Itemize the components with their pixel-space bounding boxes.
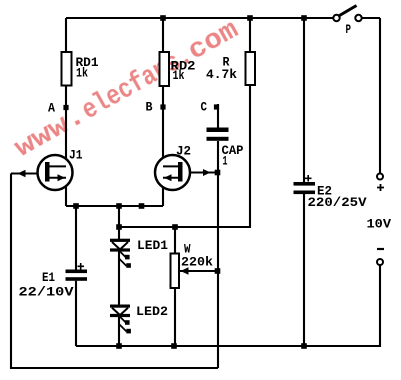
svg-text:220/25V: 220/25V bbox=[308, 195, 367, 210]
node dot E2 / negative rail bbox=[301, 343, 307, 349]
wire left feedback loop and bottom to C line bbox=[11, 174, 218, 369]
wire C line from bottom up to CAP1 lower plate bbox=[217, 141, 219, 368]
wire R down and left to LED/pot bus bbox=[119, 85, 250, 227]
wire battery minus lead to negative rail bbox=[304, 265, 380, 346]
minus mark battery bbox=[377, 248, 384, 250]
potentiometer W body bbox=[171, 254, 180, 289]
node dot source bus extra bbox=[139, 203, 145, 209]
node dot W top / R bus bbox=[172, 224, 178, 230]
LED1 bbox=[110, 239, 131, 268]
wire W top lead bbox=[174, 227, 176, 254]
wire RD2 to J2 drain through node B bbox=[162, 86, 164, 166]
wire E1 top lead bbox=[75, 206, 77, 270]
node dot top rail R bbox=[247, 15, 253, 21]
node dot E1 / source bus bbox=[73, 203, 79, 209]
svg-text:4.7k: 4.7k bbox=[206, 67, 237, 82]
svg-text:B: B bbox=[146, 100, 153, 115]
node dot LED branch / source bus bbox=[116, 203, 122, 209]
wire battery plus lead bbox=[379, 18, 381, 174]
transistor J1 bbox=[38, 155, 73, 190]
node dot J2 gate / C line bbox=[215, 170, 221, 176]
battery minus terminal bbox=[377, 259, 383, 265]
wire E2 branch top bbox=[303, 18, 305, 182]
watermark www.elecfans.com bbox=[10, 15, 244, 165]
svg-text:C: C bbox=[201, 100, 208, 115]
node A bbox=[63, 105, 68, 110]
svg-text:1k: 1k bbox=[76, 66, 88, 81]
svg-text:P: P bbox=[346, 22, 352, 37]
potentiometer W wiper arrow bbox=[181, 267, 189, 274]
wire negative rail bbox=[76, 345, 380, 347]
svg-text:220k: 220k bbox=[181, 255, 213, 270]
node dot top rail E2 bbox=[301, 15, 307, 21]
LED2 bbox=[110, 305, 131, 334]
wire J1 source to bus bbox=[65, 178, 67, 206]
capacitor E1 bbox=[66, 270, 88, 281]
node dot LED2 / negative rail bbox=[116, 343, 122, 349]
wire node C to CAP1 top plate bbox=[217, 104, 219, 128]
wire R branch top bbox=[249, 18, 251, 52]
wire RD1 to J1 drain through node A bbox=[65, 86, 67, 167]
wire W wiper to C line bbox=[179, 270, 218, 272]
wire W bottom lead bbox=[174, 288, 176, 346]
svg-text:J1: J1 bbox=[69, 148, 83, 163]
capacitor CAP 1 bbox=[207, 128, 229, 141]
plus mark E2 bbox=[305, 175, 312, 182]
wire LED2 to negative rail bbox=[118, 317, 120, 346]
svg-text:J2: J2 bbox=[176, 144, 191, 159]
wire E1 bottom lead bbox=[75, 281, 77, 346]
plus mark E1 bbox=[78, 263, 85, 270]
svg-text:LED1: LED1 bbox=[137, 238, 168, 253]
node dot LED branch / R bus bbox=[116, 224, 122, 230]
node dot wiper / C line bbox=[215, 268, 221, 274]
svg-text:10V: 10V bbox=[367, 217, 392, 232]
arrow on J2 gate bbox=[203, 169, 211, 176]
wire source bus bbox=[66, 205, 163, 207]
wire J2 source to bus bbox=[162, 178, 164, 206]
node dot W bottom / negative rail bbox=[171, 343, 177, 349]
svg-text:LED2: LED2 bbox=[136, 304, 168, 319]
svg-text:A: A bbox=[48, 101, 55, 116]
resistor R bbox=[246, 52, 256, 85]
switch P bbox=[333, 6, 361, 22]
resistor RD1 bbox=[62, 52, 72, 86]
wire RD1 branch top bbox=[65, 18, 67, 52]
wire top rail left of switch bbox=[66, 17, 333, 19]
resistor RD2 bbox=[160, 52, 170, 86]
arrow on J1 gate bbox=[18, 170, 26, 177]
wire LED1 to LED2 bbox=[118, 252, 120, 305]
capacitor E2 bbox=[294, 182, 316, 194]
wire RD2 branch top bbox=[162, 18, 164, 52]
wire LED branch upper bbox=[118, 206, 120, 239]
plus mark battery bbox=[377, 184, 384, 191]
wire J2 gate to C line bbox=[183, 171, 219, 173]
battery plus terminal bbox=[377, 174, 383, 180]
svg-text:E1: E1 bbox=[42, 270, 55, 285]
wire J1 gate bbox=[11, 172, 46, 174]
svg-text:22/10V: 22/10V bbox=[19, 285, 74, 300]
wire top rail right of switch bbox=[362, 17, 380, 19]
node dot top rail RD2 bbox=[160, 15, 166, 21]
svg-text:1k: 1k bbox=[173, 68, 185, 83]
transistor J2 bbox=[155, 155, 190, 190]
wire E2 bottom to negative rail bbox=[303, 194, 305, 346]
node C bbox=[214, 104, 219, 109]
svg-text:1: 1 bbox=[223, 154, 228, 169]
node B bbox=[160, 104, 165, 109]
